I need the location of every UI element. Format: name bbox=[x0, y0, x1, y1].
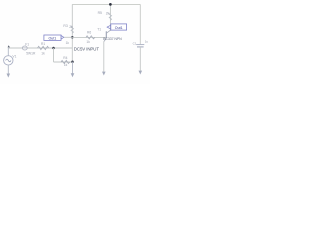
wire divider horizontal bbox=[54, 61, 73, 63]
wire junction to base bbox=[72, 36, 106, 38]
source sine bbox=[6, 59, 11, 62]
ground A arrow bbox=[7, 74, 11, 78]
svg-text:1k: 1k bbox=[41, 51, 45, 55]
svg-text:R3: R3 bbox=[63, 24, 67, 28]
input terminal tick bbox=[8, 45, 10, 47]
svg-text:1k: 1k bbox=[64, 63, 68, 67]
net label Out1 (right) bbox=[107, 25, 111, 29]
transistor T1 base bar bbox=[105, 31, 107, 38]
svg-text:V1: V1 bbox=[12, 54, 16, 58]
svg-text:5W1R: 5W1R bbox=[26, 51, 36, 55]
svg-text:2k: 2k bbox=[106, 11, 110, 15]
net label Out1 (left) bbox=[61, 35, 64, 39]
svg-text:1u: 1u bbox=[145, 39, 149, 43]
source VG1 circle bbox=[4, 56, 13, 65]
svg-text:R1: R1 bbox=[41, 42, 45, 46]
svg-text:DC5V INPUT: DC5V INPUT bbox=[74, 47, 100, 52]
wire left vertical from top rail down to lower node bbox=[71, 4, 73, 61]
ground C arrow bbox=[102, 72, 106, 76]
svg-text:C1: C1 bbox=[133, 42, 137, 46]
svg-text:R4: R4 bbox=[63, 56, 67, 60]
resistor R5 zigzag on mid vertical bbox=[109, 13, 111, 20]
wire top rail bbox=[72, 3, 140, 5]
wire stub to ground B bbox=[72, 62, 74, 74]
wire emitter to ground C bbox=[103, 42, 105, 73]
svg-text:R5: R5 bbox=[98, 11, 102, 15]
fuse F1 bbox=[22, 46, 27, 50]
resistor R1 zigzag bbox=[38, 46, 49, 49]
node junction feedback bbox=[71, 36, 74, 39]
svg-text:R6: R6 bbox=[87, 31, 91, 35]
resistor R4 zigzag bbox=[61, 60, 70, 63]
node junction top rail bbox=[109, 3, 112, 6]
resistor R6 zigzag bbox=[86, 36, 95, 39]
node junction at divider tap bbox=[52, 47, 55, 50]
svg-text:Out1: Out1 bbox=[115, 26, 123, 30]
resistor R3 zigzag on left vertical bbox=[71, 26, 73, 33]
svg-text:F1: F1 bbox=[25, 42, 29, 46]
wire source to ground A bbox=[7, 65, 9, 74]
wire mid vertical (collector branch) bbox=[109, 4, 111, 31]
svg-text:T1: T1 bbox=[97, 28, 101, 32]
wire right vertical upper (to capacitor) bbox=[139, 4, 141, 44]
ground B arrow bbox=[71, 73, 75, 77]
wire capacitor to ground D bbox=[139, 47, 141, 71]
capacitor C1 top plate bbox=[136, 44, 144, 46]
svg-text:BC337 NPN: BC337 NPN bbox=[103, 37, 122, 41]
node junction lower bbox=[71, 60, 74, 63]
transistor emitter diagonal bbox=[104, 38, 107, 41]
wire left source vertical bbox=[7, 48, 9, 56]
svg-text:1k: 1k bbox=[86, 40, 90, 44]
wire net label 1 to junction bbox=[64, 36, 73, 38]
svg-text:Out1: Out1 bbox=[49, 36, 57, 40]
svg-text:1k: 1k bbox=[66, 41, 70, 45]
wire divider down bbox=[53, 48, 55, 62]
transistor collector diagonal bbox=[106, 30, 110, 33]
capacitor C1 bottom plate bbox=[137, 46, 144, 48]
wire bottom main rail bbox=[8, 47, 72, 49]
svg-text:2k: 2k bbox=[69, 25, 73, 29]
ground D arrow bbox=[139, 71, 143, 75]
